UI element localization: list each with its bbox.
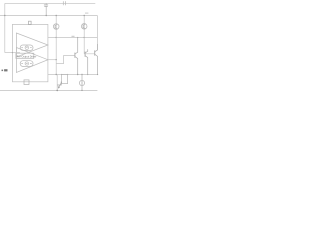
transistor Q1 [75, 38, 78, 75]
label above nodeB right [85, 13, 88, 14]
wire output rail y74.5 [48, 74, 98, 76]
wire right border [96, 16, 98, 51]
transistor Q3 [85, 49, 88, 74]
wire chain2 vertical x84.2 [83, 16, 85, 53]
driver stage icon D1 (oval with symbols) [20, 45, 33, 50]
driver block "Pre-Output Driver" [16, 53, 34, 58]
wire left border drop [4, 3, 6, 52]
current source CS1 (circle) [79, 75, 84, 91]
wire chain1 vertical x56 [55, 16, 57, 60]
driver stage icon D2 (oval with symbols) [20, 61, 33, 67]
wire chain1 to rail [55, 60, 57, 75]
wire node-B horizontal line y15 [0, 15, 97, 17]
transistor T1 (circle) [53, 24, 59, 30]
transistor T2 (circle) [81, 24, 87, 30]
node junction Q1c-bias [77, 37, 78, 38]
node junction chain1-bias [56, 37, 57, 38]
capacitor C1 [44, 3, 48, 15]
IC U1 outline [12, 24, 48, 81]
svg-text:Pre-Output Driver: Pre-Output Driver [17, 55, 37, 58]
connector J1 on top rail [63, 1, 65, 5]
node junction C1-nodeB [46, 15, 47, 16]
node junction R1-right-rail [67, 74, 68, 75]
node junction feedback-ICedge [12, 52, 13, 53]
wire bias line y37.5 [48, 37, 98, 39]
wire V+ top rail [5, 2, 96, 4]
transistor Q2 [95, 44, 98, 75]
node junction chain1-nodeB [56, 15, 57, 16]
op-amp A1 triangle [16, 33, 48, 57]
op-amp A2 triangle [16, 48, 48, 73]
node junction CS1-gnd [81, 90, 82, 91]
node junction chain2-nodeB [84, 15, 85, 16]
node junction at x4.8 y15 [4, 15, 5, 16]
node junction chain1-rail [56, 74, 57, 75]
wire A2 output staircase [48, 59, 56, 61]
node junction A2out-chain1 [56, 59, 57, 60]
resistor R1 (box below rail) [62, 75, 68, 84]
arrow current marker [57, 82, 62, 89]
pin pad P2 on IC bottom edge [24, 80, 29, 85]
wire ground rail y90.4 [0, 89, 97, 91]
node junction CS1-rail [81, 74, 82, 75]
pin pad P1 on IC top edge [29, 21, 32, 24]
node junction R1-left-rail [61, 74, 62, 75]
node junction Q1e-rail [77, 74, 78, 75]
node junction Q2e-rail [97, 74, 98, 75]
label -IN pin text [2, 69, 8, 71]
node junction Q3e-rail [87, 74, 88, 75]
wire jog to Q1 base [56, 56, 75, 64]
node junction sense-gnd [56, 90, 58, 92]
node junction chain2-bias [84, 37, 85, 38]
wire sense drop x57 [56, 75, 58, 91]
wire feedback line y52.7 from left border to driver [5, 52, 20, 54]
label above bias line [72, 36, 75, 37]
wire base feed y53.8 [84, 52, 95, 53]
